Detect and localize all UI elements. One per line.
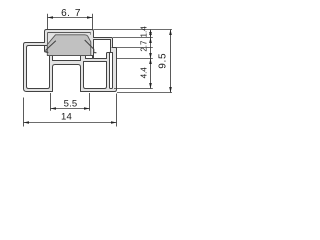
dimension 9.5 lower arrow (169, 87, 172, 93)
rail profile body (cross-section with slot hat, wings, chambers, bottom channel) (24, 30, 117, 92)
dimension 6.7 extension and dimension lines (48, 14, 93, 30)
dimension 14 extension and dimension lines (24, 94, 117, 127)
dimension 1.4 upper arrow (149, 30, 152, 36)
svg-text:4.4: 4.4 (140, 67, 149, 79)
dimension 9.5 upper arrow (169, 30, 172, 36)
dimension 5.5 extension and dimension lines (51, 93, 90, 111)
svg-text:9.5: 9.5 (157, 53, 168, 69)
slot inner contour lines (48, 33, 91, 46)
gray sliding insert in slot (47, 35, 91, 56)
dimension 14 right arrow (111, 121, 117, 124)
dimension 5.5 left arrow (51, 107, 57, 110)
dimension 2.7 upper arrow (149, 38, 152, 44)
left snap arm of insert (46, 41, 56, 53)
right snap arm of insert (85, 40, 97, 53)
svg-text:14: 14 (61, 111, 72, 122)
dimension 1.4 lower arrow (149, 32, 152, 38)
dimension 6.7 right arrow (87, 16, 93, 19)
dimension 5.5 right arrow (84, 107, 90, 110)
dimension 14 left arrow (24, 121, 30, 124)
dimension 4.4 upper arrow (149, 59, 152, 65)
dimension 4.4 lower arrow (149, 83, 152, 89)
shadow band above insert (48, 33, 91, 35)
svg-text:1.4: 1.4 (140, 26, 149, 38)
svg-text:5.5: 5.5 (64, 98, 78, 109)
right side extension lines and vertical dimension lines (94, 30, 173, 93)
svg-text:2.7: 2.7 (140, 40, 149, 52)
dimension 2.7 lower arrow (149, 53, 152, 59)
left slot wall toe (45, 46, 48, 53)
dimension 6.7 left arrow (48, 16, 54, 19)
